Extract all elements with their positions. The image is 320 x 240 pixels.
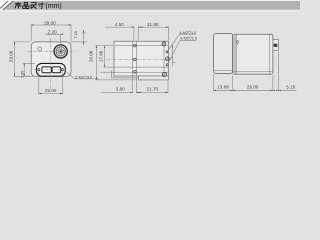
svg-text:3-M2▽1.5: 3-M2▽1.5 [180, 37, 197, 41]
svg-text:13.88: 13.88 [217, 85, 229, 90]
svg-text:5.10: 5.10 [286, 85, 295, 90]
svg-text:7.20: 7.20 [74, 31, 78, 38]
svg-text:4.50: 4.50 [115, 22, 124, 27]
svg-text:7.65: 7.65 [20, 71, 24, 78]
svg-text:29.00: 29.00 [8, 50, 13, 62]
svg-text:(mm): (mm) [45, 3, 61, 10]
svg-text:29.00: 29.00 [44, 20, 56, 25]
svg-text:3.80: 3.80 [116, 86, 125, 91]
svg-text:29.00: 29.00 [247, 85, 259, 90]
svg-text:18.00: 18.00 [45, 88, 57, 93]
svg-text:26.00: 26.00 [89, 50, 94, 62]
svg-text:21.80: 21.80 [147, 22, 159, 27]
svg-text:7.20: 7.20 [48, 30, 57, 35]
svg-text:21.70: 21.70 [147, 86, 159, 91]
svg-text:4-M2▽1.5: 4-M2▽1.5 [179, 31, 196, 35]
svg-text:17.80: 17.80 [98, 50, 103, 62]
svg-text:2-M2▽3.0: 2-M2▽3.0 [75, 75, 92, 79]
